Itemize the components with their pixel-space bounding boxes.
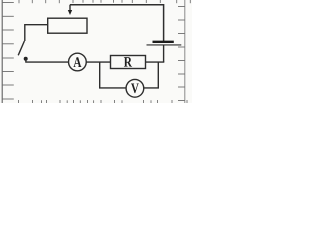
resistor R box (111, 56, 146, 69)
switch blade (18, 41, 24, 55)
battery negative plate (short thick) (153, 41, 174, 43)
wire: voltmeter right lead up to R branch (144, 62, 159, 88)
wire: battery bottom lead (163, 46, 165, 63)
wire: R right lead to battery junction (146, 61, 165, 63)
rheostat slider arrowhead (68, 10, 72, 15)
voltmeter V circle (126, 79, 144, 97)
rheostat slider arrow stem (69, 5, 71, 11)
wire: top run to battery (70, 5, 164, 41)
switch bottom contact dot (24, 57, 28, 61)
wire: left junction down to voltmeter branch (100, 62, 126, 88)
wire: rheostat left lead to switch top (25, 25, 48, 41)
wire: switch dot to ammeter (26, 59, 69, 62)
resistor label R (124, 57, 132, 66)
ammeter A circle (69, 53, 87, 71)
ammeter label A (73, 57, 81, 67)
wire: ammeter to R branch (86, 61, 110, 63)
voltmeter label V (131, 83, 139, 93)
battery positive plate (long thin) (147, 44, 182, 46)
rheostat box (48, 18, 87, 33)
